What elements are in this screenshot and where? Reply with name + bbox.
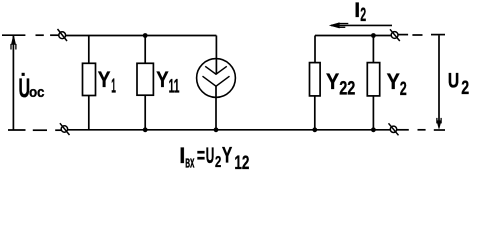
svg-text:=: = [197, 143, 205, 168]
svg-text:Y: Y [326, 69, 339, 94]
wire bottom-left dash 1 [33, 129, 47, 131]
wire Y11 bottom lead [144, 96, 146, 130]
label Uoc [19, 73, 45, 103]
resistor-style box Y1 [83, 63, 96, 95]
svg-text:1: 1 [111, 76, 116, 98]
terminal bottom-left (circle with slash) [60, 123, 70, 135]
wire top-right rail [315, 35, 391, 37]
resistor-style box Y2 [367, 63, 379, 96]
wire top-left tick of Uoc measure [2, 34, 25, 36]
wire corner down to Y22 [314, 36, 316, 63]
label U2 [448, 70, 469, 100]
svg-text:2: 2 [400, 79, 407, 100]
svg-text:U: U [206, 143, 215, 168]
Uoc measure arrow (up) [11, 36, 16, 130]
I2 current arrow (left) [330, 23, 392, 28]
svg-text:Y: Y [387, 69, 400, 94]
terminal top-left (circle with slash) [58, 29, 68, 41]
junction dot bottom current source [214, 127, 219, 132]
current source circle [197, 59, 236, 98]
label Y2 [387, 69, 407, 100]
wire bottom-right dash [418, 129, 426, 131]
svg-text:2: 2 [215, 154, 221, 171]
wire Y2 bottom lead [372, 97, 374, 130]
wire bottom tick of Uoc measure [8, 129, 26, 131]
wire Y22 bottom lead [314, 97, 316, 130]
wire top-left dash [36, 34, 44, 36]
label formula Ivx = U2 Y12 [179, 142, 249, 173]
wire Y1 top lead [88, 36, 90, 64]
wire top rail left section [66, 35, 217, 37]
wire top tick of U2 measure [431, 34, 445, 36]
terminal bottom-right (circle with slash) [389, 123, 399, 135]
svg-text:12: 12 [234, 153, 249, 174]
wire Y11 top lead [144, 36, 146, 64]
label Y11 [156, 67, 179, 98]
svg-text:Y: Y [222, 142, 233, 167]
svg-text:22: 22 [339, 78, 355, 99]
svg-text:I: I [354, 0, 360, 22]
terminal top-right (circle with slash) [390, 29, 400, 41]
svg-text:вх: вх [185, 154, 195, 172]
junction dot top Y11 [143, 33, 148, 38]
wire top-left segment before terminal [50, 34, 59, 36]
U2 measure arrow (down) [437, 36, 441, 129]
svg-text:11: 11 [169, 77, 180, 98]
wire top-right dash [412, 34, 422, 36]
current source upper chevron [205, 66, 227, 74]
svg-text:U: U [448, 70, 459, 93]
resistor-style box Y11 [137, 63, 153, 95]
resistor-style box Y22 [310, 63, 321, 96]
svg-text:2: 2 [360, 5, 366, 26]
label Y1 [98, 67, 116, 98]
wire current source bottom lead [215, 86, 217, 130]
svg-text:ос: ос [29, 84, 45, 101]
svg-text:2: 2 [461, 78, 469, 99]
junction dot bottom Y11 [143, 127, 148, 132]
junction dot bottom Y22 [312, 127, 317, 132]
wire top-right after terminal [398, 34, 408, 36]
wire bottom rail [68, 129, 391, 131]
current source lower chevron [203, 76, 230, 86]
svg-text:Y: Y [156, 67, 169, 92]
wire corner down to current source [215, 36, 217, 75]
junction dot top Y2 [371, 33, 376, 38]
wire Y1 bottom lead [88, 96, 90, 130]
wire bottom tick of U2 measure [434, 129, 445, 131]
junction dot bottom Y2 [371, 127, 376, 132]
wire bottom-left dash 2 [55, 129, 61, 131]
svg-text:Y: Y [98, 67, 111, 92]
label Y22 [326, 69, 355, 99]
wire bottom-right after terminal [397, 129, 409, 131]
wire Y2 top lead [372, 36, 374, 63]
label I2 [354, 0, 366, 26]
